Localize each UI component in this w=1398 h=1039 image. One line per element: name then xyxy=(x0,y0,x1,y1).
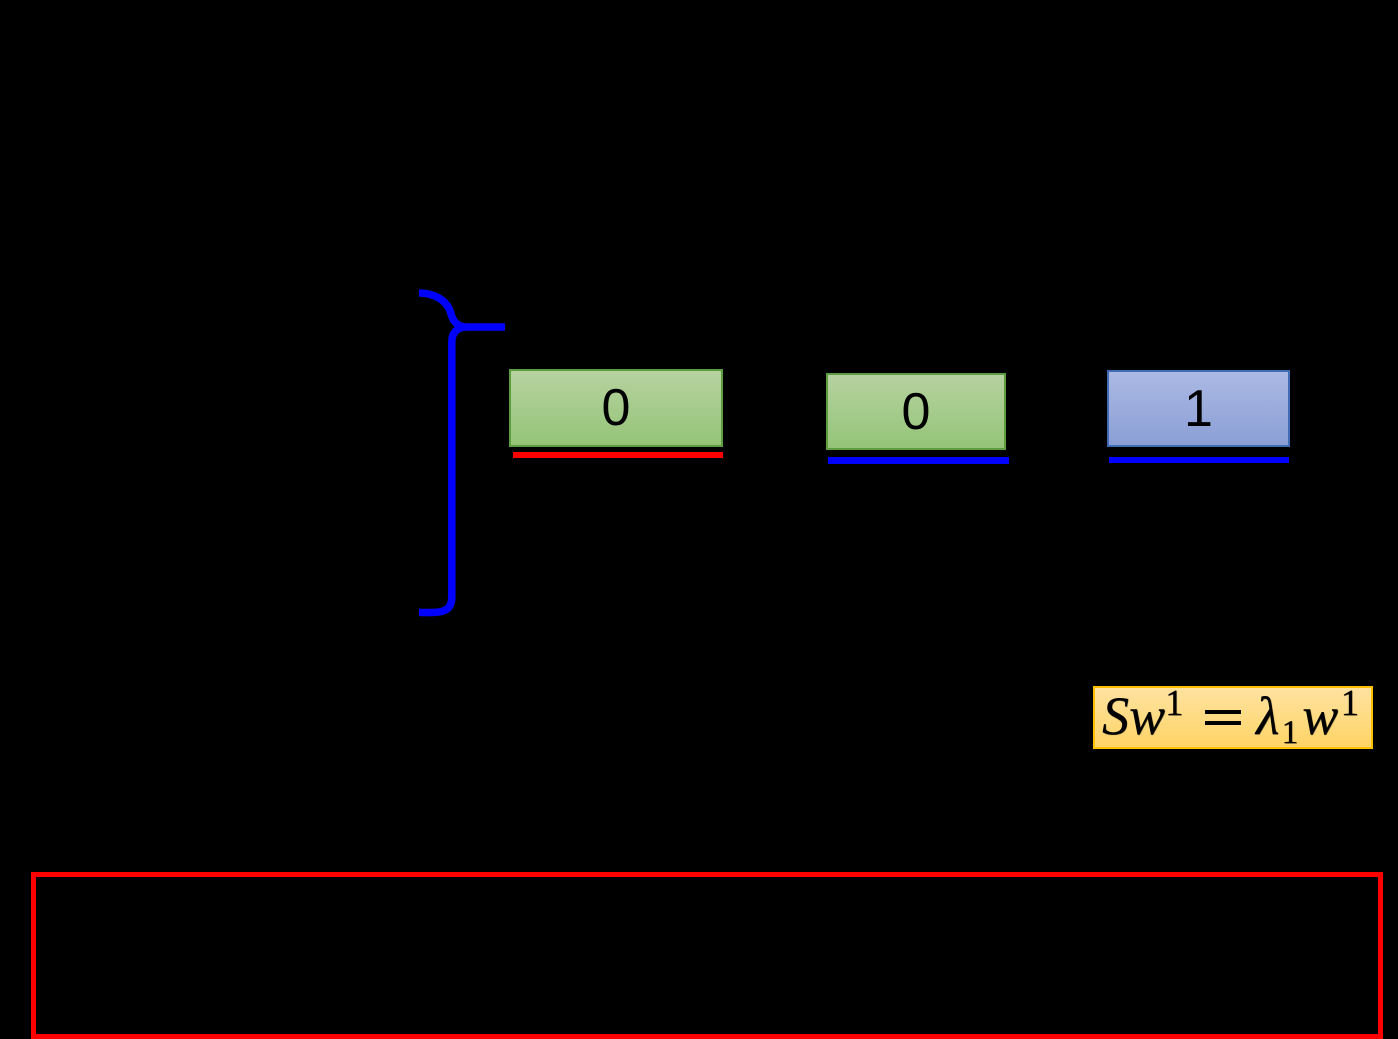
pointer tick xyxy=(462,323,505,331)
blue underline 2 xyxy=(828,457,1009,464)
red underline 1 xyxy=(513,452,723,458)
blue box 3 xyxy=(1107,370,1290,447)
green box 1 xyxy=(509,369,723,447)
right brace xyxy=(419,293,466,613)
formula box Sw1 = lambda1 w1 xyxy=(1093,686,1374,749)
green box 2 xyxy=(826,373,1006,450)
red rectangle frame xyxy=(31,872,1383,1039)
blue underline 3 xyxy=(1109,457,1289,463)
